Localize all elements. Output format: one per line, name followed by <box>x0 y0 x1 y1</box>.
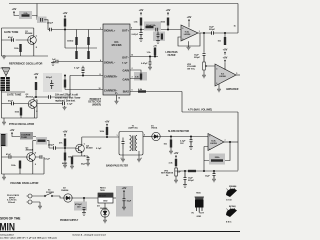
wire VR2 row to right edge <box>175 170 238 172</box>
svg-text:10V: 10V <box>180 143 184 145</box>
resistor R osc1 collector <box>22 14 30 16</box>
svg-text:OUT: OUT <box>200 212 205 214</box>
ground 4700uF <box>82 212 86 216</box>
+9V bias <box>63 11 68 18</box>
wire IC3 output <box>236 74 240 76</box>
wire vr2 to feedback rail <box>203 161 205 172</box>
svg-text:1: 1 <box>100 28 101 30</box>
ground antenna top <box>2 55 6 59</box>
svg-text:3: 3 <box>132 77 133 79</box>
wire r to out- wire <box>154 56 156 57</box>
wire cap to wire <box>53 61 65 63</box>
svg-text:2: 2 <box>182 39 183 41</box>
svg-text:ON VOL: ON VOL <box>187 68 196 70</box>
svg-text:10k and 220pF is old: 10k and 220pF is old <box>55 95 78 97</box>
capacitor in box <box>123 199 126 206</box>
capacitor osc1 base <box>12 38 14 42</box>
T1 core lines <box>133 136 134 152</box>
wire switch to D2 <box>53 196 64 198</box>
svg-text:GND: GND <box>103 200 108 202</box>
wire REG1 out to +9V box <box>113 197 124 199</box>
wire r100k to wire <box>167 26 169 30</box>
svg-text:V–: V– <box>115 91 119 95</box>
T1 winding left <box>130 136 132 151</box>
wire osc2 bottom <box>2 92 38 118</box>
IC1 V- ground stub <box>116 95 118 100</box>
wire r to wire <box>140 26 142 30</box>
+9V VR2 <box>174 151 179 158</box>
paper background <box>0 0 240 240</box>
antenna symbol <box>2 68 10 77</box>
+9V out pullup <box>139 8 144 15</box>
capacitor 10uF series <box>212 31 214 35</box>
ground in box <box>122 206 126 210</box>
highlight box 4700uF <box>74 202 87 211</box>
+9V 100k IC2a input <box>166 8 171 15</box>
wire bias junction <box>65 27 103 62</box>
resistor 27k <box>64 139 66 147</box>
transformer T1 box <box>119 132 143 156</box>
wire 10k stub <box>224 33 226 37</box>
+9V below 10k <box>223 48 228 55</box>
svg-text:BIAS: BIAS <box>123 90 129 94</box>
ground VR2 bottom <box>174 179 178 183</box>
resistor 1.5k out pullup <box>140 18 142 26</box>
IC2a feedback loop <box>178 33 200 46</box>
coil L1 winding b <box>6 77 10 91</box>
svg-text:GAIN: GAIN <box>123 78 130 82</box>
svg-text:COARSE: COARSE <box>21 133 31 136</box>
svg-text:12: 12 <box>131 55 133 57</box>
capacitor 4700uF <box>83 208 86 212</box>
ground vr2 cap b <box>212 178 216 182</box>
svg-text:2: 2 <box>121 158 122 160</box>
capacitor C 220pF coupling <box>49 28 51 32</box>
capacitor 0.1uF carrier bypass <box>82 71 85 73</box>
wire T1 to D1 <box>143 136 152 138</box>
wire +9V to dark label box <box>12 135 20 136</box>
svg-text:OUT–: OUT– <box>122 56 129 60</box>
REG1 in out text <box>98 193 113 198</box>
svg-text:E B C: E B C <box>226 222 232 224</box>
svg-text:2N5484: 2N5484 <box>229 185 237 188</box>
capacitor in box 2 <box>157 32 160 39</box>
wire cap to carrier riser <box>50 76 103 98</box>
TO-220 package <box>195 197 205 213</box>
wire Q2 to cap <box>37 103 63 105</box>
resistor grid c <box>75 51 77 59</box>
wire osc1 bottom <box>2 28 49 56</box>
wire 220pF to Q4 base <box>56 147 76 149</box>
T1 bottom pins <box>123 149 139 158</box>
feedback wire right <box>225 142 230 161</box>
resistor 100k osc1 <box>19 44 21 52</box>
resistor 10k below <box>64 153 66 161</box>
svg-text:0.1µF: 0.1µF <box>96 148 102 150</box>
wire in box <box>123 193 125 198</box>
capacitor 10uF vr2 b <box>213 171 216 178</box>
op-amp IC3 LM386 <box>215 64 236 86</box>
transistor Q3 <box>27 153 36 162</box>
svg-text:PRODUCT: PRODUCT <box>90 99 102 101</box>
bottom rule <box>0 231 240 232</box>
svg-text:REFERENCE OSCILLATOR: REFERENCE OSCILLATOR <box>9 62 42 66</box>
highlight box LPF cap 2 <box>153 32 165 42</box>
+9V IC3 <box>223 56 228 63</box>
+9V pitch mid <box>63 130 68 137</box>
svg-text:220µF: 220µF <box>194 57 201 59</box>
capacitor 10uF to pot <box>203 54 206 63</box>
svg-text:LOW PASS: LOW PASS <box>165 51 178 54</box>
svg-text:3: 3 <box>182 28 183 30</box>
svg-text:10: 10 <box>99 88 101 90</box>
coil L1 winding a <box>1 77 6 91</box>
capacitor 56pF q4 <box>87 156 90 162</box>
connector circles <box>28 194 32 198</box>
svg-text:10µF: 10µF <box>127 201 132 203</box>
svg-text:BAND-PASS FILTER: BAND-PASS FILTER <box>106 165 128 168</box>
wire IC1 OUT- row <box>130 56 158 58</box>
svg-text:SLOPE DETECTOR: SLOPE DETECTOR <box>168 131 189 133</box>
diode D2 <box>64 194 72 202</box>
wire VR3 wiper to IC3 <box>204 66 215 74</box>
wire top rail tap at x37 <box>36 4 38 18</box>
wire IC2b output <box>224 141 238 143</box>
svg-text:IN OUT: IN OUT <box>99 196 107 198</box>
svg-text:3: 3 <box>216 69 217 71</box>
resistor 10k slope <box>170 140 172 148</box>
transistor Q2 <box>28 100 37 109</box>
TO-92 package a <box>226 188 237 198</box>
svg-text:GATE TUNE: GATE TUNE <box>4 31 19 34</box>
wire osc2 top <box>2 91 26 93</box>
wire IC2a output <box>200 32 238 34</box>
+9V 100k q4 <box>105 120 110 127</box>
resistor 3.3k above VR2 <box>175 159 177 166</box>
svg-text:680Ω: 680Ω <box>62 163 67 165</box>
ground IC2a <box>188 41 190 46</box>
svg-text:+9V: +9V <box>153 46 157 48</box>
switch S1 <box>44 195 46 197</box>
wire R box to junction x37 <box>32 16 37 20</box>
ground bias cap <box>51 62 55 66</box>
svg-text:0.1µF: 0.1µF <box>122 63 128 65</box>
resistor in box 2 <box>161 34 163 40</box>
ground 0.47uF out- <box>148 66 152 70</box>
wire D1 to IC2b <box>160 136 208 139</box>
svg-text:1: 1 <box>117 135 118 137</box>
junction to 4700uF <box>83 198 85 202</box>
svg-text:47pF: 47pF <box>8 100 14 103</box>
svg-text:OUT+: OUT+ <box>122 29 129 33</box>
svg-text:LM386: LM386 <box>219 76 226 78</box>
svg-text:220pF: 220pF <box>46 77 53 79</box>
resistor 3.3k gain <box>140 74 142 80</box>
potentiometer VR3 <box>203 62 209 70</box>
TO-92 package b <box>226 208 237 218</box>
ground osc2 bottom left <box>3 118 5 121</box>
resistor ref osc collector <box>35 82 37 90</box>
capacitor 0.47uF out <box>139 30 142 38</box>
svg-text:0.47µF: 0.47µF <box>132 33 139 36</box>
ground 680 <box>70 165 74 169</box>
capacitor LPF in box <box>156 28 158 32</box>
svg-text:5: 5 <box>209 136 210 138</box>
capacitor 0.1uF Q3 right <box>40 155 42 159</box>
svg-text:220µF: 220µF <box>209 29 216 31</box>
capacitor 220pF carrier coupling <box>49 95 51 99</box>
resistor 100k Q3 <box>19 161 21 169</box>
resistor 100k osc2 <box>20 108 22 116</box>
ground Q2 cap <box>63 106 67 110</box>
svg-text:220k: 220k <box>215 157 221 159</box>
ground connector <box>38 205 42 209</box>
diode D3 <box>101 209 109 217</box>
+9V in box <box>122 186 127 193</box>
wire box to 220pF <box>33 137 54 149</box>
VR2 wiper wire <box>176 166 180 179</box>
wire box2 to 220pF <box>44 20 49 30</box>
faint highlight box 220pF old mod <box>43 73 62 92</box>
svg-text:100пF 10k: 100пF 10k <box>146 25 157 27</box>
svg-text:0.1µF: 0.1µF <box>67 104 73 106</box>
wire r to junction <box>106 135 108 137</box>
svg-text:SIGNAL–: SIGNAL– <box>104 61 116 65</box>
wire coil to osc2 <box>1 91 3 92</box>
wire bypass cap <box>82 69 84 76</box>
wire IC1 OUT+ to IC2a <box>130 29 181 31</box>
svg-text:(42IF110): (42IF110) <box>129 127 138 130</box>
highlight box 220k <box>209 154 225 165</box>
resistor 100k grid b <box>87 37 89 45</box>
wire D2 to REG1 <box>72 197 98 199</box>
svg-text:DETECTOR: DETECTOR <box>88 102 101 104</box>
feedback wire left <box>204 147 209 161</box>
T1 winding right <box>135 136 137 151</box>
diode D1 <box>152 132 160 140</box>
svg-text:2N5484: 2N5484 <box>26 149 34 152</box>
svg-text:PITCH OSCILLATOR: PITCH OSCILLATOR <box>9 122 34 126</box>
transistor Q4 <box>76 144 85 153</box>
svg-text:1: 1 <box>199 31 200 33</box>
wire 27k to wire <box>64 147 66 149</box>
svg-text:6: 6 <box>131 28 132 30</box>
svg-text:BC548: BC548 <box>86 147 93 150</box>
ground pitch bottom <box>3 174 5 176</box>
svg-text:SIGNAL+: SIGNAL+ <box>104 29 116 33</box>
wire pitch bottom <box>2 139 45 174</box>
ground box2 <box>156 40 160 44</box>
highlight box +9V filter <box>116 186 133 217</box>
highlight box 3.3k gain <box>134 72 147 81</box>
resistor 10k to 9v <box>224 37 226 45</box>
svg-text:POWER SUPPLY: POWER SUPPLY <box>60 220 79 222</box>
capacitor Q2 emitter 0.1uF <box>63 102 65 106</box>
svg-text:1N914: 1N914 <box>151 127 158 130</box>
highlight box LPF <box>144 22 161 31</box>
svg-text:G S D: G S D <box>226 200 232 202</box>
svg-text:0.47µF: 0.47µF <box>141 62 148 65</box>
resistor in pitch box <box>38 140 46 142</box>
resistor grid d <box>87 51 89 59</box>
highlight box osc1 collector R <box>19 11 32 19</box>
highlight box osc1 output cap <box>37 17 47 24</box>
svg-text:LM358: LM358 <box>210 143 217 145</box>
wire D3 <box>104 203 106 219</box>
resistor bias 1.5k horizontal <box>138 90 146 92</box>
+9V IC2a <box>187 15 192 22</box>
svg-text:AMPLIFIER: AMPLIFIER <box>226 88 239 91</box>
svg-text:220pF: 220pF <box>48 144 55 146</box>
svg-text:GAIN: GAIN <box>123 69 130 73</box>
IC1 body <box>103 24 130 95</box>
resistor 1k carrier divider <box>64 80 66 88</box>
svg-text:2: 2 <box>132 68 133 70</box>
capacitor Q3 base <box>9 155 11 159</box>
ground 10k slope <box>169 150 173 154</box>
wire Q3 collector to box <box>33 141 36 153</box>
wire ic3 9v stub <box>224 63 226 70</box>
capacitor in box <box>40 18 42 22</box>
svg-text:SION OF THE: SION OF THE <box>0 217 20 221</box>
svg-text:2: 2 <box>216 83 217 85</box>
wire 9v stub ic2a <box>188 23 190 28</box>
pot VR2 <box>175 168 178 176</box>
wire +9V to R box <box>14 14 19 15</box>
wire carrier- row <box>65 76 103 90</box>
wire ref osc output <box>34 97 49 100</box>
coil pitch winding <box>1 134 6 146</box>
+9V ref osc collector <box>34 72 39 79</box>
wire Q4 emitter <box>72 153 88 156</box>
resistor 1k horizontal vr2 <box>188 170 196 172</box>
ground 2.2uF <box>189 146 193 150</box>
+9V pitch osc left <box>10 128 15 135</box>
capacitor bypass signal- <box>56 60 58 64</box>
capacitor 0.47uF out- <box>149 57 152 67</box>
svg-text:1N4004: 1N4004 <box>61 189 69 192</box>
svg-text:FILTER: FILTER <box>168 55 176 57</box>
capacitor 220pF pitch coupling <box>54 146 56 150</box>
svg-text:wiring added: wiring added <box>0 234 14 236</box>
svg-text:8: 8 <box>100 74 101 76</box>
svg-text:220µF: 220µF <box>188 180 195 182</box>
ground 0.47uF <box>139 38 143 42</box>
wire 220pF to IC1 SIGNAL+ <box>51 29 103 31</box>
svg-text:0.1µF: 0.1µF <box>45 159 51 161</box>
wire Q2 base <box>2 103 29 105</box>
wire grid stubs <box>77 30 89 52</box>
wire Q1 base <box>2 39 28 41</box>
highlight box pitch coarse tune dark <box>20 132 33 140</box>
wire Q4 collector up <box>82 137 119 144</box>
svg-text:5: 5 <box>144 135 145 137</box>
wire top +9V rail <box>9 3 238 5</box>
svg-text:GATE TUNE: GATE TUNE <box>7 93 22 96</box>
ground T1 b <box>137 158 141 162</box>
wire 10k slope stub <box>170 137 172 151</box>
resistor 100k q4 <box>106 127 108 135</box>
resistor 1.5k out- <box>154 48 156 56</box>
svg-text:47pF: 47pF <box>8 36 14 39</box>
svg-text:2N3904: 2N3904 <box>26 95 34 98</box>
wire 4.7V max volume <box>182 112 238 171</box>
ground IC3 <box>218 84 220 88</box>
svg-text:2N3904: 2N3904 <box>25 32 33 35</box>
svg-text:ass filter values (100 nF > 1: ass filter values (100 nF > 1 µF and 100… <box>0 237 57 240</box>
gain wires <box>130 70 141 81</box>
ground IC1 <box>115 100 119 104</box>
op-amp IC2a <box>181 25 198 41</box>
svg-text:5: 5 <box>236 73 237 75</box>
svg-text:100kΩ: 100kΩ <box>67 41 74 43</box>
capacitor 2.2uF slope <box>190 137 193 146</box>
wire Q1 emitter to bottom <box>33 44 35 56</box>
wire 10k to gnd <box>64 148 66 164</box>
+9V supply osc1 <box>12 7 17 14</box>
capacitor osc2 base 47pF <box>12 102 14 106</box>
resistor 100k IC2a input <box>167 18 169 26</box>
wire q3 cap <box>35 157 44 174</box>
svg-text:0.1µF: 0.1µF <box>74 68 80 70</box>
wire Q3 base <box>2 156 27 158</box>
ground VR3 <box>202 74 206 78</box>
svg-text:TUNE: TUNE <box>21 137 27 139</box>
svg-text:MC1496: MC1496 <box>112 43 122 47</box>
svg-text:5: 5 <box>132 90 133 92</box>
resistor 680 q4 <box>71 157 73 165</box>
svg-text:CARRIER+: CARRIER+ <box>104 75 118 79</box>
svg-text:47pF: 47pF <box>6 153 12 156</box>
svg-text:56pF: 56pF <box>81 163 87 165</box>
svg-text:LM358: LM358 <box>184 34 191 36</box>
ground vr2 cap a <box>183 184 187 188</box>
wire output tap down to cap <box>203 33 205 53</box>
resistor 100k grid a <box>75 37 77 45</box>
ground 56pF <box>86 162 90 166</box>
wire right edge drop from rail <box>237 4 239 34</box>
coil pitch gray box <box>0 133 8 147</box>
svg-text:6: 6 <box>209 149 210 151</box>
wire ref collector junction <box>35 90 37 97</box>
svg-text:300mA: 300mA <box>8 201 15 204</box>
capacitor 10uF vr2 a <box>184 171 187 184</box>
svg-text:revision 4 - changed sound mod: revision 4 - changed sound mod <box>72 233 106 236</box>
svg-text:4.7V (MAX. VOLUME): 4.7V (MAX. VOLUME) <box>188 109 212 112</box>
svg-text:220pF: 220pF <box>47 23 54 25</box>
svg-text:BC548: BC548 <box>229 205 236 208</box>
ground 10k pitch <box>63 164 67 168</box>
highlight box pitch osc R <box>36 137 47 145</box>
wire Q1 collector <box>25 28 34 36</box>
resistor 220k horizontal <box>211 159 223 161</box>
wire connector to switch <box>32 196 44 205</box>
svg-text:GND: GND <box>197 216 202 218</box>
svg-text:replaced. See text.: replaced. See text. <box>55 100 76 103</box>
resistor LPF in box <box>146 26 154 28</box>
osc1 internals: top wire <box>2 27 26 29</box>
REG1 box <box>98 193 113 203</box>
svg-text:10µF: 10µF <box>205 176 211 178</box>
transistor Q1 <box>28 36 37 45</box>
capacitor ghost in faint box <box>50 80 54 89</box>
ground T1 a <box>121 158 125 162</box>
op-amp IC2b <box>208 134 224 151</box>
T1 internal cap <box>122 138 125 150</box>
svg-text:(MIXER): (MIXER) <box>92 104 101 106</box>
svg-text:VOLUME OSCILLATOR: VOLUME OSCILLATOR <box>10 181 39 185</box>
svg-text:7: 7 <box>225 140 226 142</box>
